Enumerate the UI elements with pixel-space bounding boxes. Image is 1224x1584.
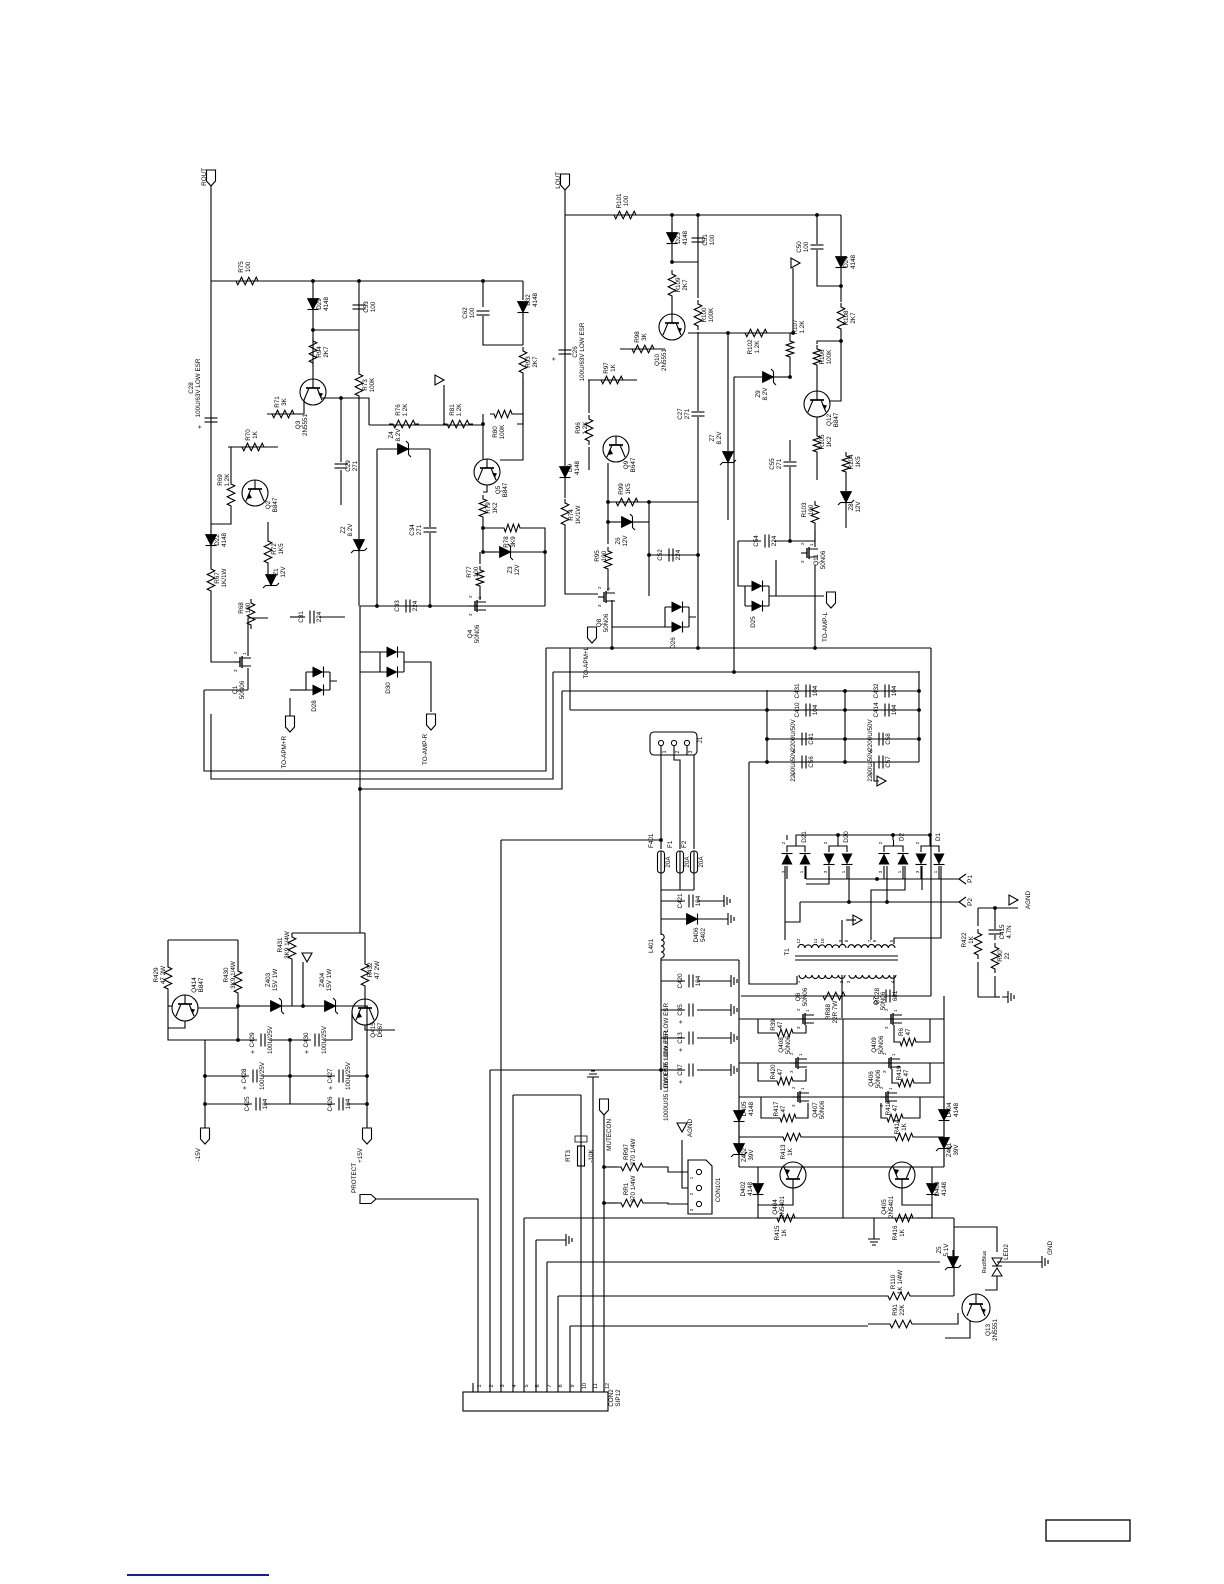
svg-text:R420: R420 bbox=[770, 1064, 777, 1080]
wire bbox=[893, 975, 895, 996]
svg-text:3: 3 bbox=[688, 750, 694, 753]
svg-text:1K/1W: 1K/1W bbox=[221, 568, 228, 587]
svg-text:3: 3 bbox=[796, 1026, 801, 1029]
wire bbox=[500, 414, 523, 460]
svg-text:RR88: RR88 bbox=[825, 1003, 832, 1020]
wire bbox=[767, 738, 919, 740]
wire bbox=[360, 671, 380, 673]
svg-text:C414: C414 bbox=[873, 702, 880, 718]
svg-text:2N5551: 2N5551 bbox=[992, 1318, 999, 1341]
svg-text:3: 3 bbox=[500, 1384, 506, 1387]
wire bbox=[845, 503, 847, 528]
svg-text:R98: R98 bbox=[634, 331, 641, 343]
junction bbox=[843, 737, 847, 741]
wire bbox=[758, 1217, 773, 1219]
wire bbox=[482, 521, 484, 552]
transistor Q5 bbox=[474, 459, 509, 497]
wire bbox=[365, 1025, 395, 1030]
resistor R39 bbox=[770, 1019, 797, 1037]
svg-text:270 1/4W: 270 1/4W bbox=[630, 1175, 637, 1202]
wire bbox=[472, 1383, 474, 1392]
ground bbox=[725, 1064, 737, 1076]
resistor R417 bbox=[773, 1101, 800, 1122]
wire bbox=[237, 1008, 239, 1040]
ground AGND bbox=[1009, 895, 1018, 905]
wire bbox=[211, 280, 523, 282]
svg-text:R76: R76 bbox=[395, 404, 402, 416]
svg-text:2200U/50V: 2200U/50V bbox=[867, 749, 874, 781]
ground bbox=[725, 975, 737, 987]
wire bbox=[168, 1021, 185, 1028]
wire bbox=[796, 835, 931, 840]
wire bbox=[697, 502, 699, 555]
wire bbox=[920, 866, 922, 879]
svg-text:3: 3 bbox=[468, 613, 473, 616]
capacitor C420 bbox=[677, 973, 702, 989]
mosfet Q1 bbox=[232, 651, 251, 699]
svg-text:C26: C26 bbox=[572, 346, 579, 358]
svg-text:Q409: Q409 bbox=[871, 1037, 878, 1053]
wire bbox=[727, 463, 729, 520]
svg-text:1000U/35 LOW ESR: 1000U/35 LOW ESR bbox=[663, 1063, 670, 1122]
svg-text:2: 2 bbox=[781, 841, 786, 844]
resistor R109 bbox=[668, 270, 689, 300]
svg-text:1K5: 1K5 bbox=[625, 483, 632, 495]
svg-text:LOUT: LOUT bbox=[555, 172, 562, 189]
wire bbox=[805, 1136, 891, 1138]
wire bbox=[814, 527, 816, 541]
svg-text:R93: R93 bbox=[525, 356, 532, 368]
ground bbox=[1036, 1256, 1048, 1268]
svg-text:+: + bbox=[551, 357, 558, 361]
junction bbox=[843, 760, 847, 764]
wire bbox=[916, 1313, 958, 1324]
wire bbox=[814, 530, 816, 547]
wire bbox=[687, 746, 694, 849]
svg-text:271: 271 bbox=[352, 460, 359, 471]
svg-text:2: 2 bbox=[489, 1384, 495, 1387]
svg-text:271: 271 bbox=[776, 458, 783, 469]
svg-text:4148: 4148 bbox=[748, 1102, 755, 1117]
capacitor C51 bbox=[692, 234, 717, 246]
wire bbox=[359, 606, 361, 933]
svg-text:2: 2 bbox=[878, 841, 883, 844]
wire bbox=[774, 540, 815, 542]
wire bbox=[883, 866, 885, 879]
svg-text:3: 3 bbox=[882, 1070, 887, 1073]
svg-text:D25: D25 bbox=[750, 616, 757, 628]
wire bbox=[336, 1005, 368, 1007]
wire bbox=[985, 1276, 997, 1290]
wire bbox=[886, 866, 888, 902]
wire bbox=[921, 866, 923, 890]
svg-text:100K: 100K bbox=[499, 424, 506, 440]
svg-text:D28: D28 bbox=[311, 700, 318, 712]
wire bbox=[800, 901, 959, 903]
svg-text:47: 47 bbox=[780, 1105, 787, 1113]
svg-text:100: 100 bbox=[245, 261, 252, 272]
zener Z401 bbox=[936, 1138, 960, 1158]
resistor RR97 bbox=[617, 1138, 647, 1170]
junction bbox=[311, 328, 315, 332]
zener Z403 bbox=[265, 969, 284, 1014]
svg-text:1: 1 bbox=[888, 1087, 893, 1090]
junction bbox=[288, 1038, 292, 1042]
svg-text:R102: R102 bbox=[747, 339, 754, 355]
wire bbox=[697, 262, 699, 298]
svg-text:3: 3 bbox=[597, 604, 602, 607]
wire bbox=[894, 1025, 896, 1042]
svg-text:15V 1W: 15V 1W bbox=[326, 969, 333, 991]
svg-text:3K: 3K bbox=[641, 332, 648, 341]
wire bbox=[945, 1320, 970, 1338]
wire bbox=[524, 528, 545, 606]
wire bbox=[661, 1037, 685, 1039]
ground triangle bbox=[877, 776, 886, 786]
zener Z402 bbox=[731, 1144, 755, 1163]
wire bbox=[846, 866, 848, 879]
svg-text:CON2: CON2 bbox=[608, 1389, 615, 1407]
diode D23 bbox=[667, 231, 690, 246]
svg-text:R416: R416 bbox=[892, 1225, 899, 1241]
resistor R419 bbox=[894, 1065, 918, 1087]
svg-text:1.2K: 1.2K bbox=[224, 473, 231, 487]
capacitor bbox=[791, 756, 806, 777]
svg-text:2N5551: 2N5551 bbox=[661, 348, 668, 371]
junction bbox=[726, 331, 730, 335]
wire bbox=[679, 873, 681, 890]
wire bbox=[978, 976, 995, 997]
svg-text:+: + bbox=[678, 1080, 685, 1084]
svg-text:50N06: 50N06 bbox=[474, 624, 481, 643]
capacitor C13 bbox=[677, 1032, 693, 1053]
wire bbox=[671, 215, 673, 262]
wire bbox=[841, 975, 843, 1018]
wire bbox=[917, 1136, 944, 1138]
junction bbox=[839, 339, 843, 343]
wire bbox=[757, 1195, 759, 1218]
wire bbox=[994, 935, 996, 940]
terminal PROTECT bbox=[351, 1163, 376, 1204]
ground triangle bbox=[791, 258, 800, 268]
resistor R90 bbox=[991, 943, 1011, 973]
wire bbox=[490, 1069, 661, 1071]
transistor Q404 bbox=[772, 1162, 806, 1218]
resistor R415 bbox=[773, 1214, 799, 1240]
svg-text:10: 10 bbox=[820, 938, 825, 944]
svg-text:C58: C58 bbox=[885, 733, 892, 745]
wire bbox=[868, 1323, 886, 1325]
zener Z9 bbox=[755, 369, 776, 400]
svg-text:Q10: Q10 bbox=[654, 354, 661, 366]
wire bbox=[817, 250, 841, 286]
svg-text:47 2W: 47 2W bbox=[160, 966, 167, 984]
wire bbox=[523, 1218, 525, 1392]
svg-text:104: 104 bbox=[891, 704, 898, 715]
svg-text:50N06: 50N06 bbox=[880, 991, 887, 1010]
wire bbox=[588, 447, 590, 470]
svg-text:100: 100 bbox=[623, 195, 630, 206]
svg-text:2: 2 bbox=[800, 542, 805, 545]
svg-text:TO-AMP-R: TO-AMP-R bbox=[422, 734, 429, 765]
resistor R79 bbox=[479, 495, 499, 521]
svg-text:4148: 4148 bbox=[941, 1182, 948, 1197]
terminal -15V bbox=[195, 1128, 210, 1161]
svg-text:Red/Blue: Red/Blue bbox=[982, 1251, 988, 1274]
wire bbox=[799, 1217, 891, 1219]
svg-text:C50: C50 bbox=[796, 241, 803, 253]
wire bbox=[647, 1203, 688, 1204]
svg-text:12V: 12V bbox=[280, 566, 287, 578]
svg-text:20A: 20A bbox=[698, 856, 705, 868]
wire bbox=[569, 648, 571, 710]
svg-text:8.2V: 8.2V bbox=[347, 523, 354, 537]
diode D406 bbox=[687, 914, 708, 943]
wire bbox=[674, 746, 680, 849]
svg-text:Q404: Q404 bbox=[772, 1199, 779, 1215]
svg-text:R79: R79 bbox=[485, 502, 492, 514]
capacitor bbox=[197, 418, 218, 429]
footer rule bbox=[127, 1574, 269, 1576]
svg-text:100U/63V LOW ESR: 100U/63V LOW ESR bbox=[579, 322, 586, 381]
resistor RR1 bbox=[617, 1175, 647, 1206]
wire bbox=[953, 1218, 955, 1296]
wire bbox=[607, 573, 609, 591]
junction bbox=[659, 838, 663, 842]
capacitor C53 bbox=[353, 301, 378, 313]
resistor R110 bbox=[884, 1270, 914, 1300]
svg-text:R78: R78 bbox=[503, 536, 510, 548]
terminal TO-APM+L bbox=[583, 627, 597, 679]
wire bbox=[570, 1325, 868, 1327]
wire bbox=[789, 440, 791, 461]
svg-text:2N5401: 2N5401 bbox=[779, 1195, 786, 1218]
capacitor C429 bbox=[249, 1025, 274, 1054]
diode D24 bbox=[836, 255, 858, 270]
svg-text:1K2: 1K2 bbox=[492, 502, 499, 514]
svg-text:Q7: Q7 bbox=[873, 996, 880, 1005]
svg-text:Q414: Q414 bbox=[191, 977, 198, 993]
wire bbox=[846, 919, 856, 921]
svg-text:D406: D406 bbox=[693, 927, 700, 943]
svg-text:4148: 4148 bbox=[323, 297, 330, 312]
resistor R106 bbox=[813, 345, 833, 369]
svg-text:Q3: Q3 bbox=[295, 420, 302, 429]
svg-text:+: + bbox=[328, 1086, 335, 1090]
wire bbox=[522, 313, 524, 345]
svg-text:D1: D1 bbox=[935, 832, 942, 841]
wire bbox=[364, 990, 366, 999]
svg-text:R95: R95 bbox=[594, 550, 601, 562]
connector J1 bbox=[650, 732, 704, 755]
wire bbox=[360, 605, 545, 607]
junction bbox=[365, 1074, 369, 1078]
wire bbox=[479, 590, 481, 600]
capacitor C415 bbox=[989, 924, 1014, 940]
svg-text:R74: R74 bbox=[568, 509, 575, 521]
diode LED2 bbox=[982, 1244, 1010, 1276]
diode D30 bbox=[380, 647, 411, 694]
svg-text:100: 100 bbox=[370, 301, 377, 312]
svg-text:Q4: Q4 bbox=[467, 629, 474, 638]
svg-text:270 1/4W: 270 1/4W bbox=[630, 1138, 637, 1165]
capacitor C34 bbox=[409, 524, 437, 536]
svg-text:2: 2 bbox=[468, 595, 473, 598]
svg-text:1: 1 bbox=[893, 1009, 898, 1012]
svg-text:Z1: Z1 bbox=[273, 568, 280, 576]
wire bbox=[290, 616, 305, 618]
svg-text:5: 5 bbox=[524, 1384, 530, 1387]
junction bbox=[917, 708, 921, 712]
junction bbox=[836, 833, 840, 837]
ground bbox=[587, 1071, 599, 1083]
svg-text:+: + bbox=[678, 1048, 685, 1052]
svg-text:C62: C62 bbox=[462, 307, 469, 319]
svg-text:R413: R413 bbox=[780, 1144, 787, 1160]
svg-text:4148: 4148 bbox=[574, 461, 581, 476]
svg-text:D403: D403 bbox=[934, 1181, 941, 1197]
wire bbox=[483, 527, 500, 529]
wire bbox=[369, 424, 483, 426]
svg-text:Z6: Z6 bbox=[615, 537, 622, 545]
wire bbox=[693, 873, 695, 890]
wire bbox=[874, 762, 879, 781]
svg-text:D9: D9 bbox=[567, 463, 574, 472]
svg-text:22: 22 bbox=[1004, 952, 1011, 960]
wire bbox=[366, 1006, 368, 1076]
svg-text:5.1V: 5.1V bbox=[943, 1243, 950, 1257]
resistor R108 bbox=[837, 303, 857, 333]
resistor R81 bbox=[443, 403, 473, 428]
wire bbox=[892, 835, 894, 840]
resistor R77 bbox=[466, 566, 484, 590]
svg-text:B847: B847 bbox=[502, 482, 509, 497]
svg-text:1K 1/4W: 1K 1/4W bbox=[897, 1270, 904, 1294]
wire bbox=[443, 385, 445, 424]
wire bbox=[524, 1217, 954, 1219]
wire bbox=[930, 835, 932, 996]
wire bbox=[862, 1295, 884, 1297]
capacitor C33 bbox=[394, 600, 419, 613]
wire bbox=[228, 446, 278, 448]
wire bbox=[377, 448, 397, 450]
label TO-APM+R bbox=[0, 0, 1, 1]
svg-text:1K: 1K bbox=[968, 935, 975, 944]
svg-text:Q13: Q13 bbox=[985, 1324, 992, 1336]
svg-text:2200U/50V: 2200U/50V bbox=[867, 718, 874, 750]
wire bbox=[205, 1103, 252, 1105]
resistor R431 bbox=[277, 931, 296, 963]
svg-text:47 2W: 47 2W bbox=[374, 961, 381, 979]
wire bbox=[517, 377, 523, 424]
wire bbox=[672, 261, 698, 263]
svg-text:Q407: Q407 bbox=[812, 1102, 819, 1118]
ground triangle bbox=[435, 375, 444, 385]
svg-text:Q11: Q11 bbox=[813, 554, 820, 566]
mosfet Q6 bbox=[795, 987, 814, 1029]
svg-text:C57: C57 bbox=[885, 756, 892, 768]
diode D21 bbox=[781, 831, 811, 874]
transistor Q10 bbox=[654, 314, 685, 371]
wire bbox=[661, 918, 686, 920]
wire bbox=[282, 1005, 324, 1007]
svg-text:1: 1 bbox=[809, 543, 814, 546]
wire bbox=[633, 521, 649, 523]
wire bbox=[841, 920, 843, 944]
zener Z7 bbox=[709, 431, 736, 465]
svg-text:1: 1 bbox=[897, 870, 902, 873]
junction bbox=[928, 833, 932, 837]
wire bbox=[411, 662, 431, 712]
svg-text:3K9 1/4W: 3K9 1/4W bbox=[284, 931, 291, 959]
svg-text:R417: R417 bbox=[773, 1101, 780, 1117]
svg-text:R96: R96 bbox=[575, 422, 582, 434]
wire bbox=[894, 866, 941, 944]
wire bbox=[938, 866, 940, 879]
svg-text:8.2V: 8.2V bbox=[716, 431, 723, 445]
wire bbox=[312, 330, 314, 379]
svg-text:2K7: 2K7 bbox=[682, 279, 689, 291]
svg-text:LED2: LED2 bbox=[1003, 1244, 1010, 1260]
wire bbox=[697, 980, 725, 982]
junction bbox=[610, 646, 614, 650]
wire bbox=[660, 746, 662, 849]
wire bbox=[261, 1075, 290, 1077]
wire bbox=[914, 1295, 954, 1297]
svg-text:271: 271 bbox=[416, 524, 423, 535]
svg-text:SIP12: SIP12 bbox=[615, 1389, 622, 1407]
svg-text:MUTECON: MUTECON bbox=[606, 1119, 613, 1151]
wire bbox=[376, 449, 378, 606]
junction bbox=[843, 708, 847, 712]
wire bbox=[248, 618, 268, 656]
connector CON2 bbox=[463, 1383, 622, 1411]
wire bbox=[800, 1103, 808, 1118]
svg-text:R109: R109 bbox=[675, 277, 682, 293]
junction bbox=[365, 1102, 369, 1106]
wire bbox=[603, 1115, 605, 1392]
capacitor bbox=[791, 733, 806, 754]
svg-text:Q408: Q408 bbox=[778, 1037, 785, 1053]
resistor R73 bbox=[355, 370, 376, 400]
wire bbox=[661, 1009, 685, 1011]
junction bbox=[647, 553, 651, 557]
resistor R105 bbox=[813, 432, 833, 456]
svg-text:3: 3 bbox=[233, 669, 238, 672]
wire bbox=[649, 554, 698, 556]
wire bbox=[204, 1040, 206, 1128]
junction bbox=[203, 1074, 207, 1078]
connector CON101 bbox=[688, 1160, 722, 1214]
resistor R430 bbox=[223, 961, 242, 997]
svg-text:+: + bbox=[242, 1086, 249, 1090]
svg-text:104: 104 bbox=[891, 685, 898, 696]
wire bbox=[211, 510, 231, 524]
terminal +15V bbox=[357, 1128, 372, 1163]
svg-text:AGND: AGND bbox=[1025, 890, 1032, 909]
wire bbox=[738, 541, 745, 586]
svg-text:B847: B847 bbox=[833, 412, 840, 427]
svg-text:Z401: Z401 bbox=[946, 1142, 953, 1157]
wire bbox=[546, 647, 931, 649]
svg-text:100: 100 bbox=[245, 602, 252, 613]
svg-text:TO-APM+R: TO-APM+R bbox=[281, 736, 288, 769]
svg-text:+15V: +15V bbox=[357, 1147, 364, 1163]
wire bbox=[512, 1095, 514, 1392]
transistor Q9 bbox=[603, 436, 637, 472]
wire bbox=[564, 215, 566, 466]
capacitor C29 bbox=[335, 460, 360, 472]
